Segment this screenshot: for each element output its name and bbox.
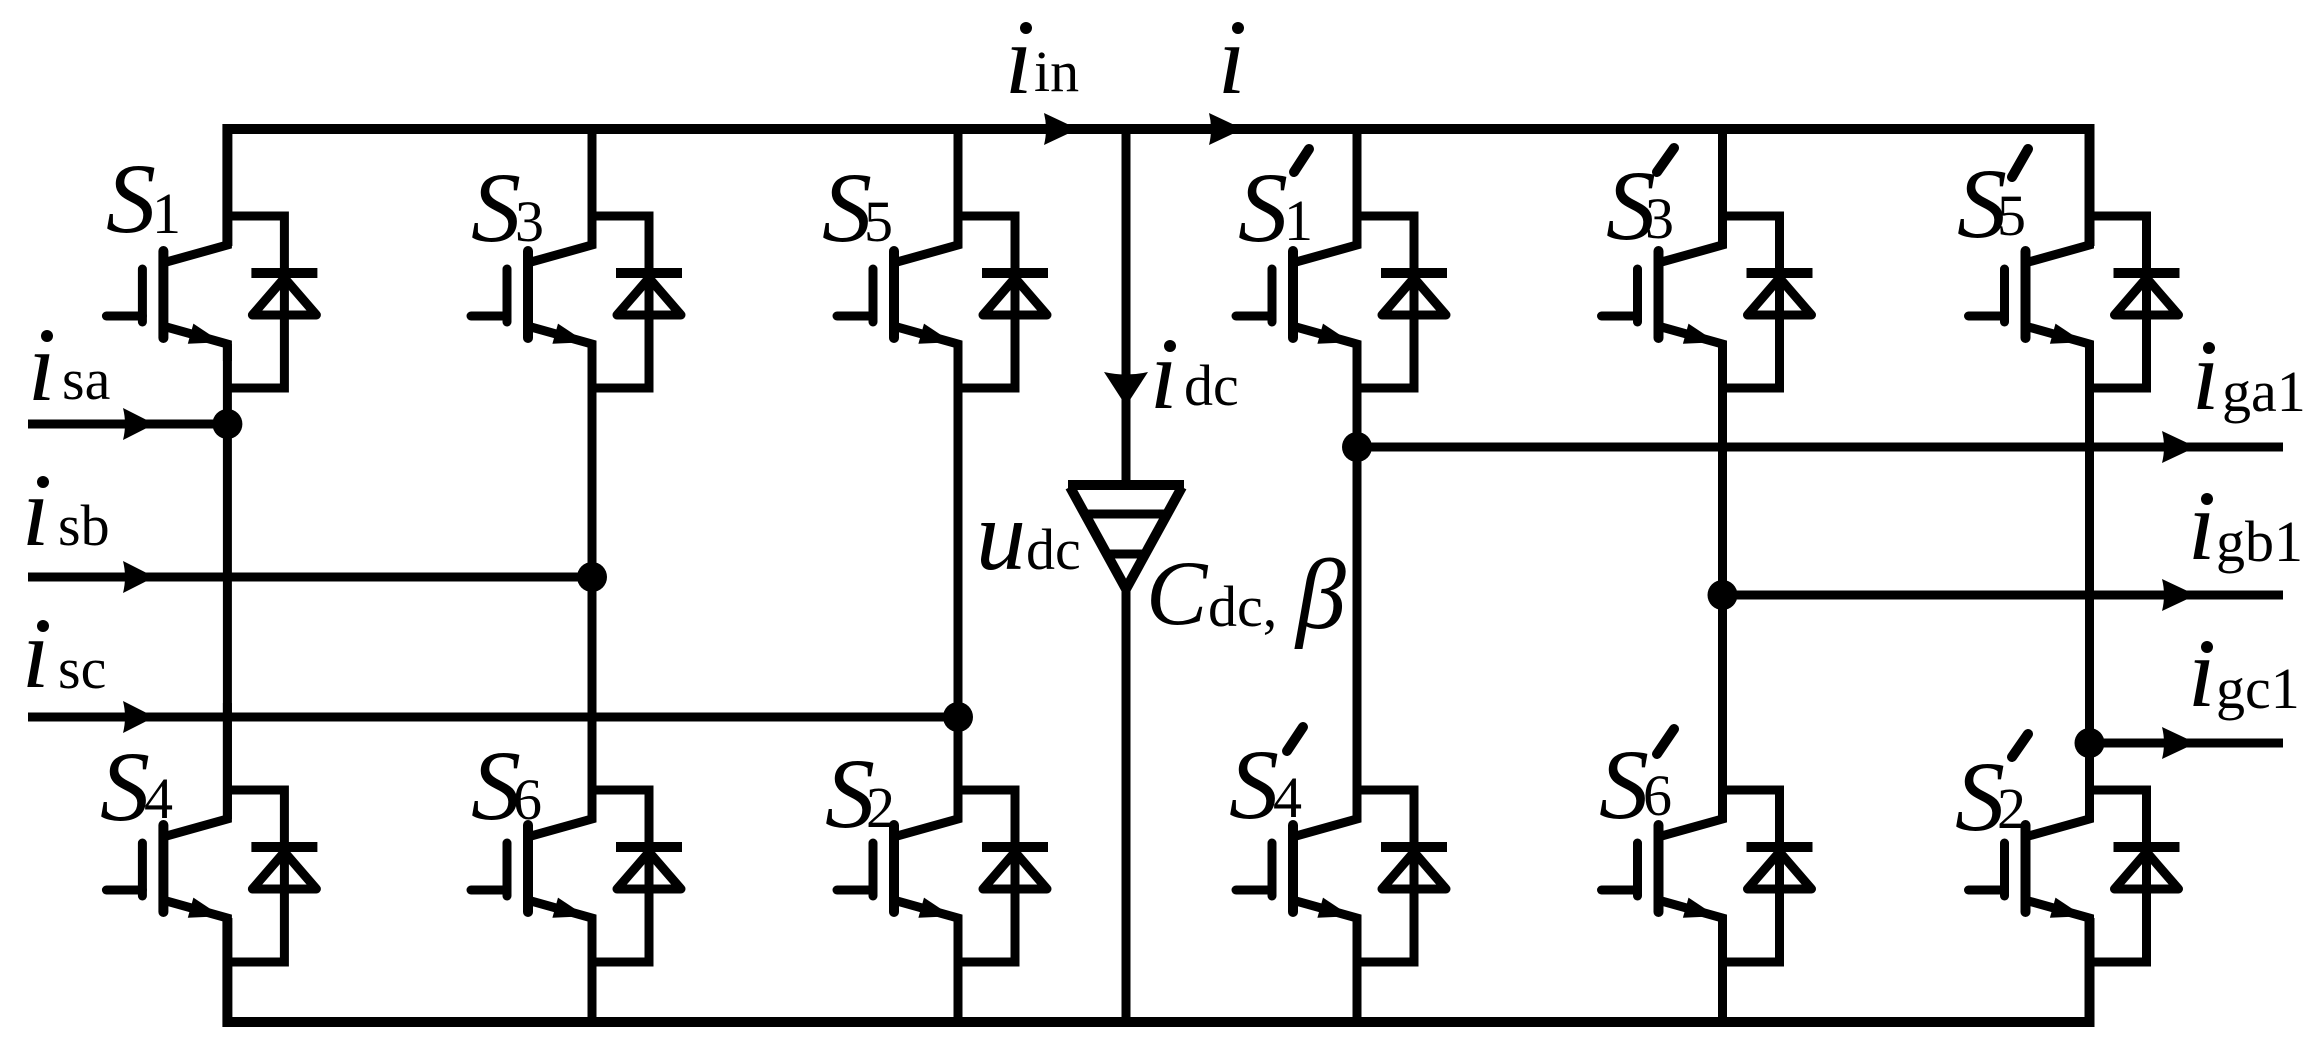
node phase b — [577, 562, 607, 592]
wire top stub column S3' — [1718, 129, 1727, 246]
arrow i_gc1 — [2162, 727, 2196, 759]
svg-text:S: S — [1229, 729, 1279, 840]
wire output line i_ga1 — [1357, 443, 2283, 452]
transistor S1 with antiparallel diode — [106, 129, 317, 388]
svg-text:gb1: gb1 — [2216, 509, 2303, 574]
arrow i on top rail — [1209, 113, 1243, 145]
svg-text:1: 1 — [152, 181, 181, 246]
svg-text:sc: sc — [58, 636, 106, 701]
wire output line i_gc1 — [2090, 739, 2284, 748]
wire phase-c leg — [954, 344, 963, 819]
label S3' — [1606, 148, 1674, 261]
label S2' — [1955, 734, 2028, 852]
svg-text:3: 3 — [515, 189, 544, 254]
svg-text:5: 5 — [864, 189, 893, 254]
label S3 — [471, 152, 544, 263]
label S1' — [1238, 149, 1313, 263]
transistor S6' with antiparallel diode — [1602, 703, 1813, 962]
label i_gc1 — [2188, 617, 2300, 728]
label i_sc — [22, 598, 106, 709]
wire top stub column S5 — [954, 129, 963, 246]
svg-text:S: S — [100, 731, 150, 842]
wire top stub column S1' — [1353, 129, 1362, 246]
arrow i_dc on DC-link — [1104, 372, 1148, 406]
node phase c — [943, 702, 973, 732]
label S4' — [1229, 727, 1303, 840]
svg-text:6: 6 — [1643, 763, 1672, 828]
label i_gb1 — [2188, 470, 2303, 581]
wire input line i_sb — [28, 573, 592, 582]
svg-text:dc,: dc, — [1208, 574, 1277, 639]
svg-text:1: 1 — [1284, 188, 1313, 253]
svg-text:ı: ı — [1218, 4, 1246, 115]
transistor S5 with antiparallel diode — [837, 129, 1048, 388]
svg-text:3: 3 — [1645, 186, 1674, 251]
wire DC-link upper — [1122, 129, 1131, 482]
svg-text:sa: sa — [62, 347, 110, 412]
svg-text:dc: dc — [1026, 517, 1081, 582]
label S2 — [825, 738, 895, 849]
svg-text:ı: ı — [1005, 4, 1033, 115]
svg-text:β: β — [1294, 539, 1346, 650]
svg-text:6: 6 — [513, 767, 542, 832]
svg-text:ı: ı — [22, 598, 50, 709]
svg-text:ı: ı — [1150, 319, 1178, 430]
arrow i_sa — [123, 408, 155, 440]
arrow i_sb — [123, 561, 155, 593]
svg-text:sb: sb — [58, 493, 110, 558]
label i_in — [1005, 4, 1079, 115]
wire DC-link lower — [1122, 589, 1131, 1022]
svg-text:S: S — [471, 152, 521, 263]
label i_dc — [1150, 319, 1239, 430]
label S6' — [1599, 729, 1674, 840]
svg-text:5: 5 — [1997, 183, 2026, 248]
transistor S3' with antiparallel diode — [1602, 129, 1813, 388]
label i_ga1 — [2192, 320, 2306, 431]
node output b1 — [1708, 580, 1738, 610]
transistor S3 with antiparallel diode — [471, 129, 682, 388]
wire bottom stub column S6' — [1718, 918, 1727, 1022]
arrow i_in on top rail — [1044, 113, 1078, 145]
label i_sa — [28, 311, 110, 422]
label C_dc, beta — [1146, 539, 1346, 650]
svg-text:4: 4 — [1273, 765, 1302, 830]
svg-text:S: S — [1238, 152, 1288, 263]
wire bottom stub column S2 — [954, 918, 963, 1022]
svg-text:2: 2 — [866, 775, 895, 840]
svg-text:u: u — [976, 480, 1026, 591]
node phase a — [212, 409, 242, 439]
label S5 — [822, 152, 893, 263]
label i_sb — [22, 456, 110, 567]
capacitor C_dc — [1068, 485, 1184, 589]
arrow i_sc — [123, 701, 155, 733]
svg-text:dc: dc — [1184, 353, 1239, 418]
arrow i_ga1 — [2162, 431, 2196, 463]
transistor S2' with antiparallel diode — [1969, 703, 2180, 962]
svg-text:2: 2 — [1997, 776, 2026, 841]
wire phase-b leg — [588, 344, 597, 819]
wire phase-a' leg — [1353, 344, 1362, 819]
wire phase-c' leg — [2085, 344, 2094, 819]
node output c1 — [2075, 728, 2105, 758]
svg-text:ı: ı — [2192, 320, 2220, 431]
wire phase-b' leg — [1718, 344, 1727, 819]
wire phase-a leg — [223, 344, 232, 819]
arrow i_gb1 — [2162, 579, 2196, 611]
transistor S2 with antiparallel diode — [837, 703, 1048, 962]
wire input line i_sc — [28, 713, 958, 722]
transistor S1' with antiparallel diode — [1236, 129, 1447, 388]
svg-text:4: 4 — [144, 766, 173, 831]
svg-text:S: S — [106, 143, 156, 254]
transistor S6 with antiparallel diode — [471, 703, 682, 962]
label u_dc — [976, 480, 1081, 591]
svg-text:ga1: ga1 — [2222, 359, 2306, 424]
svg-text:ı: ı — [28, 311, 56, 422]
wire bottom stub column S6 — [588, 918, 597, 1022]
transistor S4 with antiparallel diode — [106, 703, 317, 962]
svg-text:gc1: gc1 — [2216, 656, 2300, 721]
svg-text:ı: ı — [2188, 470, 2216, 581]
wire top stub column S3 — [588, 129, 597, 246]
wire top rail (positive DC bus) — [227, 129, 2089, 246]
wire output line i_gb1 — [1723, 591, 2284, 600]
transistor S4' with antiparallel diode — [1236, 703, 1447, 962]
label S5' — [1957, 148, 2028, 259]
svg-text:in: in — [1034, 39, 1079, 104]
svg-text:ı: ı — [2188, 617, 2216, 728]
label i — [1218, 4, 1246, 115]
svg-text:S: S — [1599, 729, 1649, 840]
label S4 — [100, 731, 173, 842]
svg-text:C: C — [1146, 542, 1209, 644]
label S1 — [106, 143, 181, 254]
node output a1 — [1342, 432, 1372, 462]
wire bottom stub column S4' — [1353, 918, 1362, 1022]
transistor S5' with antiparallel diode — [1969, 129, 2180, 388]
wire input line i_sa — [28, 420, 227, 429]
label S6 — [471, 730, 542, 841]
svg-text:ı: ı — [22, 456, 50, 567]
wire bottom rail (negative DC bus) — [227, 918, 2089, 1022]
